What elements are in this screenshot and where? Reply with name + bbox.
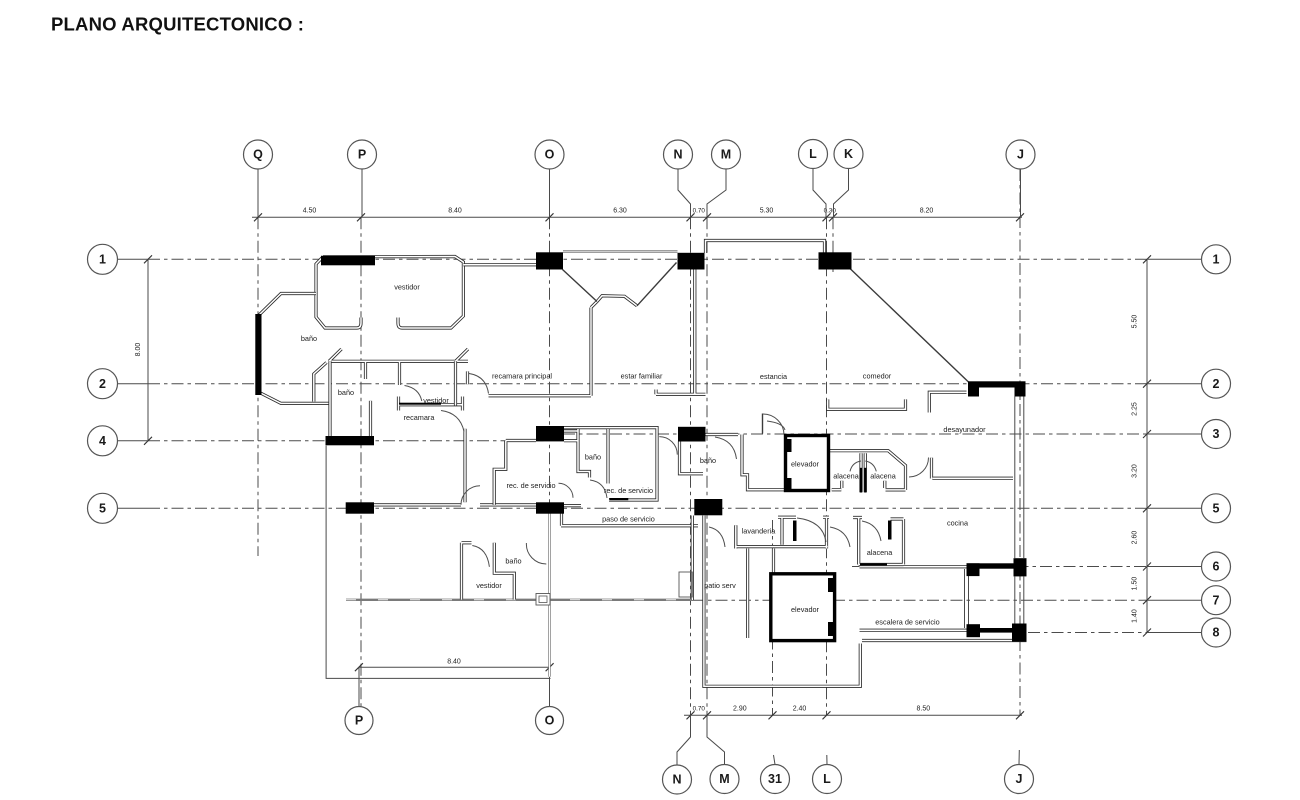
- svg-text:8.50: 8.50: [916, 706, 930, 713]
- lavanderia walls: [736, 517, 829, 548]
- recamara door arc: [441, 411, 464, 432]
- svg-text:lavanderia: lavanderia: [742, 527, 777, 536]
- bubble 3 right: [1202, 420, 1231, 449]
- svg-text:L: L: [823, 772, 831, 786]
- bubble P bottom: [345, 707, 373, 735]
- comedor lower wall: [828, 399, 906, 409]
- svg-text:comedor: comedor: [863, 372, 892, 381]
- svg-text:K: K: [844, 147, 853, 161]
- bubble O bottom: [536, 707, 564, 735]
- top dimension line: [252, 216, 1022, 218]
- bedroom partition stubs: [366, 362, 400, 385]
- bubble 31 bottom: [761, 765, 790, 794]
- svg-text:2.90: 2.90: [733, 706, 747, 713]
- svg-text:alacena: alacena: [867, 548, 894, 557]
- grid line col K: [832, 217, 834, 272]
- escalera walls: [860, 567, 967, 630]
- bay window walls at Q: [259, 294, 330, 404]
- bottom leader N: [677, 715, 691, 764]
- right dimension line: [1146, 259, 1148, 632]
- column N row1: [678, 253, 705, 270]
- leader col O: [549, 169, 551, 217]
- estancia top wall: [706, 241, 825, 254]
- bubble 7 right: [1202, 586, 1231, 615]
- svg-text:8: 8: [1213, 626, 1220, 640]
- alacena door arcs: [850, 461, 876, 471]
- svg-text:estancia: estancia: [760, 372, 788, 381]
- svg-text:4.50: 4.50: [303, 208, 317, 215]
- svg-text:8.40: 8.40: [448, 208, 462, 215]
- column P row5: [346, 502, 374, 513]
- vestidor bano lower-left rooms: [462, 543, 515, 600]
- svg-text:baño: baño: [301, 334, 317, 343]
- bottom leader P: [358, 667, 360, 706]
- elevador upper box: [786, 436, 829, 491]
- svg-text:rec. de servicio: rec. de servicio: [604, 486, 653, 495]
- bottom leader J: [1018, 750, 1020, 765]
- leader col N top: [678, 169, 691, 217]
- svg-text:baño: baño: [505, 557, 521, 566]
- leader col P: [361, 169, 363, 217]
- elevator room left wall: [746, 549, 749, 639]
- cocina alacena dark sill: [860, 563, 887, 565]
- rec de servicio dark sill: [609, 498, 628, 500]
- svg-text:P: P: [355, 714, 363, 728]
- left leader row 2: [118, 383, 149, 385]
- diagonal wall col O to chevron: [563, 270, 598, 302]
- svg-text:vestidor: vestidor: [394, 283, 420, 292]
- bubble 4 left: [88, 426, 118, 456]
- column J row6: [1014, 558, 1027, 576]
- bubble L bottom: [813, 765, 842, 794]
- grid line col Q: [257, 217, 259, 556]
- svg-text:Q: Q: [253, 148, 263, 162]
- desayunador cocina divider wall: [932, 477, 1013, 480]
- grid line col M: [706, 217, 708, 715]
- svg-text:P: P: [358, 148, 366, 162]
- diagonal wall chevron to col N: [637, 263, 677, 306]
- grid line col J: [1019, 169, 1021, 715]
- cocina alacena door arc: [862, 521, 881, 541]
- leader col K top: [834, 169, 849, 218]
- escalera landing risers: [965, 569, 969, 628]
- svg-text:31: 31: [768, 772, 782, 786]
- estancia door arc: [763, 414, 784, 435]
- vestidor shelf wall: [399, 397, 463, 411]
- bubble J top: [1006, 140, 1035, 169]
- thin wall column O to column N: [563, 251, 678, 253]
- svg-text:rec. de servicio: rec. de servicio: [506, 481, 555, 490]
- vestidor door arc bedroom: [405, 386, 422, 402]
- svg-text:1.40: 1.40: [1132, 609, 1139, 623]
- svg-text:PLANO ARQUITECTONICO :: PLANO ARQUITECTONICO :: [51, 14, 304, 35]
- svg-text:3: 3: [1213, 427, 1220, 441]
- recamara right wall: [463, 429, 466, 503]
- lower-left terrace outline: [326, 446, 550, 679]
- svg-text:2: 2: [1213, 377, 1220, 391]
- alacena door leaf r6: [888, 521, 892, 540]
- estar familiar chevron bay: [591, 296, 637, 308]
- svg-text:baño: baño: [338, 388, 354, 397]
- column O row5: [536, 502, 564, 513]
- bedroom block top wall row2: [329, 349, 468, 361]
- svg-text:6: 6: [1213, 560, 1220, 574]
- svg-text:0.70: 0.70: [693, 208, 706, 215]
- svg-text:desayunador: desayunador: [943, 425, 986, 434]
- svg-text:8.00: 8.00: [135, 343, 142, 357]
- bottom dimension line: [684, 714, 1022, 716]
- bubble N bottom: [663, 765, 692, 794]
- patio serv bump: [679, 572, 692, 597]
- grid line row 2: [148, 383, 1147, 385]
- svg-text:alacena: alacena: [870, 472, 897, 481]
- grid line row 8: [1028, 632, 1147, 634]
- bottom leader L: [826, 755, 828, 765]
- svg-text:6.30: 6.30: [613, 208, 627, 215]
- grid line row 6: [852, 566, 1147, 568]
- row6 wall bar + square: [967, 563, 1027, 568]
- bubble 6 right: [1202, 552, 1231, 581]
- bano N door arc: [715, 437, 737, 459]
- svg-text:M: M: [719, 772, 729, 786]
- bottom leader O: [549, 667, 551, 706]
- recamara principal door arc: [469, 374, 489, 394]
- bubble O top: [535, 140, 564, 169]
- left dimension line 8.00: [147, 259, 149, 441]
- grid line row 7: [692, 599, 1147, 601]
- elevador lower box: [771, 574, 835, 641]
- svg-text:3.20: 3.20: [1132, 464, 1139, 478]
- svg-text:1: 1: [99, 252, 106, 266]
- paso de servicio walls: [561, 506, 698, 526]
- vestidor shelf dark strip: [399, 403, 441, 405]
- grid line row 4 (left): [148, 440, 545, 442]
- estar familiar / estancia walls: [489, 270, 706, 396]
- svg-text:5.30: 5.30: [760, 208, 774, 215]
- column J row8: [1012, 624, 1027, 642]
- bubble 2 right: [1202, 369, 1231, 398]
- svg-text:O: O: [545, 148, 555, 162]
- cocina alacena walls row6: [853, 518, 904, 565]
- svg-text:1: 1: [1213, 252, 1220, 266]
- alacena door leaves r3-5: [860, 468, 862, 493]
- O gray wall: [548, 513, 550, 677]
- svg-text:7: 7: [1213, 593, 1220, 607]
- svg-text:8.20: 8.20: [920, 208, 934, 215]
- bubble 1 left: [88, 244, 118, 274]
- left leader row 4: [118, 440, 149, 442]
- bottom leader M: [707, 715, 725, 764]
- black wall fill octagon top: [321, 256, 375, 265]
- svg-text:5.50: 5.50: [1132, 315, 1139, 329]
- svg-text:5: 5: [99, 501, 106, 515]
- grid line row 3 (right): [563, 433, 1147, 435]
- leader col Q: [257, 169, 259, 217]
- diagonal wall col K to comedor: [851, 269, 969, 382]
- svg-text:estar familiar: estar familiar: [621, 372, 663, 381]
- svg-text:L: L: [809, 147, 817, 161]
- svg-text:O: O: [545, 714, 555, 728]
- column L-K row1: [819, 252, 852, 269]
- grid line col 31: [772, 520, 774, 715]
- column N row5: [694, 499, 722, 515]
- left leader row 5: [118, 507, 149, 509]
- bubble 5 right: [1202, 494, 1231, 523]
- alacena walls rows 3-5: [829, 451, 906, 493]
- rec. de servicio stepped wall: [494, 441, 536, 505]
- bottom leader 31: [774, 755, 776, 765]
- bano N room walls: [680, 435, 789, 490]
- svg-text:J: J: [1017, 148, 1024, 162]
- estancia door stub: [762, 414, 764, 434]
- bedroom left wall: [328, 361, 331, 436]
- bedroom right wall and door frame: [456, 361, 468, 405]
- lavanderia door leaf: [793, 521, 797, 542]
- row 5 wall left block: [374, 503, 536, 506]
- grid line col O: [549, 217, 551, 706]
- wall octagon to column O: [463, 263, 536, 266]
- leader col M top: [707, 169, 726, 217]
- svg-text:recamara: recamara: [404, 413, 436, 422]
- svg-text:5: 5: [1213, 501, 1220, 515]
- bubble 8 right: [1202, 618, 1231, 647]
- svg-text:alacena: alacena: [833, 472, 860, 481]
- grid line row 5: [148, 507, 1147, 509]
- interior block O-N walls: [564, 428, 657, 500]
- bubble J bottom: [1005, 765, 1034, 794]
- svg-text:patio serv: patio serv: [704, 581, 736, 590]
- grid line col L: [826, 217, 828, 715]
- outer wall below escalera: [862, 639, 1027, 642]
- estancia-elevator door arc: [767, 421, 785, 430]
- black wall bar at Q: [255, 314, 261, 395]
- svg-text:8.40: 8.40: [447, 659, 461, 666]
- outer wall lower-left block: [704, 516, 860, 687]
- row7 window box: [536, 594, 550, 606]
- desayunador corner wall: [929, 392, 966, 412]
- lavanderia door arcs: [709, 518, 850, 547]
- patio serv walls: [692, 516, 773, 601]
- svg-text:baño: baño: [585, 453, 601, 462]
- desayunador door stub: [930, 458, 933, 479]
- svg-text:2.40: 2.40: [793, 706, 807, 713]
- grid line col N: [690, 217, 692, 715]
- left leader row 1: [118, 258, 149, 260]
- wall octagon vestidor top-left: [316, 257, 463, 329]
- row8 wall bar + squares: [967, 624, 981, 637]
- svg-text:cocina: cocina: [947, 519, 969, 528]
- bubble K top: [834, 140, 863, 169]
- row4 wall bar: [326, 436, 375, 445]
- svg-text:2.60: 2.60: [1132, 531, 1139, 545]
- bubble M bottom: [710, 765, 739, 794]
- bubble P top: [348, 140, 377, 169]
- svg-text:2.25: 2.25: [1132, 402, 1139, 416]
- column N row3: [678, 427, 706, 442]
- J side wall lines: [1015, 397, 1024, 624]
- svg-text:paso de servicio: paso de servicio: [602, 515, 655, 524]
- interior block door arcs: [559, 437, 678, 498]
- bubble L top: [799, 140, 828, 169]
- bubble M top: [712, 140, 741, 169]
- bubble 1 right: [1202, 245, 1231, 274]
- svg-text:elevador: elevador: [791, 605, 820, 614]
- column O row3: [536, 426, 564, 441]
- svg-text:1.50: 1.50: [1132, 577, 1139, 591]
- vestidor bano door arcs: [472, 543, 546, 567]
- svg-text:elevador: elevador: [791, 460, 820, 469]
- grid line row 1: [148, 258, 1147, 260]
- bubble 2 left: [88, 369, 118, 399]
- row2 column bar comedor: [968, 381, 1026, 387]
- svg-text:J: J: [1016, 772, 1023, 786]
- row7 gray wall: [346, 599, 692, 601]
- bano bedroom divider wall: [369, 401, 372, 436]
- svg-text:recamara principal: recamara principal: [492, 372, 552, 381]
- desayunador door arc: [909, 458, 929, 478]
- svg-text:vestidor: vestidor: [476, 581, 502, 590]
- row5 door arc left: [461, 486, 480, 505]
- svg-text:M: M: [721, 148, 731, 162]
- svg-text:4: 4: [99, 434, 106, 448]
- svg-text:N: N: [672, 773, 681, 787]
- svg-text:vestidor: vestidor: [423, 396, 449, 405]
- svg-text:0.70: 0.70: [693, 706, 706, 713]
- svg-text:2: 2: [99, 377, 106, 391]
- leader col L top: [813, 169, 826, 218]
- svg-text:baño: baño: [700, 456, 716, 465]
- svg-text:escalera de servicio: escalera de servicio: [875, 618, 940, 627]
- grid line col P: [360, 217, 362, 706]
- 8.40 dimension line lower-left: [359, 666, 550, 668]
- right leaders: [1147, 258, 1202, 260]
- column O row1: [536, 252, 563, 269]
- bubble Q: [244, 140, 273, 169]
- bubble N top: [664, 140, 693, 169]
- leader col J top: [1020, 169, 1022, 217]
- bubble 5 left: [88, 493, 118, 523]
- svg-text:N: N: [673, 148, 682, 162]
